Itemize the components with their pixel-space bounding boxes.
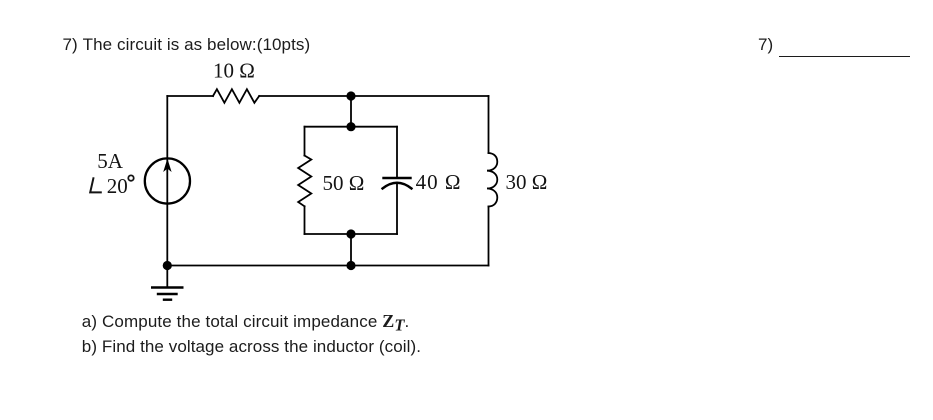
wire: inner box bottom bbox=[305, 233, 398, 235]
wire: top left segment bbox=[167, 95, 213, 97]
wire: inner box right above capacitor bbox=[396, 127, 398, 178]
title: problem statement bbox=[63, 36, 311, 53]
svg-text:40 Ω: 40 Ω bbox=[416, 170, 462, 194]
wire: right vertical above inductor bbox=[488, 96, 490, 153]
ground bar 2 bbox=[158, 293, 177, 295]
wire: right vertical below inductor bbox=[488, 207, 490, 266]
wire: inner box left below resistor bbox=[304, 206, 306, 234]
angle symbol of phasor bbox=[90, 175, 134, 192]
junction dot: top node bbox=[346, 91, 355, 100]
inductor L 30ohm coil bbox=[487, 153, 497, 207]
wire: bottom horizontal bbox=[167, 265, 488, 267]
wire: inner box top bbox=[305, 126, 398, 128]
wire: left vertical through source bbox=[166, 96, 168, 266]
current source I1 circle bbox=[145, 158, 190, 203]
capacitor C 40ohm curved plate bbox=[383, 183, 412, 189]
junction dot: bottom node bbox=[346, 261, 355, 270]
answer blank line bbox=[779, 56, 910, 58]
ground stub wire bbox=[166, 266, 168, 288]
degree symbol bbox=[128, 175, 133, 180]
resistor R 50ohm zigzag bbox=[298, 156, 311, 207]
junction dot: box bottom node bbox=[346, 229, 355, 238]
ground bar 3 bbox=[164, 299, 171, 301]
current source arrow head bbox=[163, 159, 171, 172]
junction dot: box top node bbox=[346, 122, 355, 131]
question b bbox=[82, 338, 421, 355]
wire: stub top junction to box bbox=[350, 96, 352, 127]
svg-text:5A: 5A bbox=[97, 149, 124, 173]
svg-text:20: 20 bbox=[107, 174, 128, 198]
svg-text:50 Ω: 50 Ω bbox=[323, 171, 365, 195]
ground bar 1 bbox=[152, 286, 182, 288]
capacitor C 40ohm top plate bbox=[384, 177, 411, 179]
svg-text:30 Ω: 30 Ω bbox=[506, 170, 548, 194]
wire: inner box right below capacitor bbox=[396, 183, 398, 234]
wire: top right segment bbox=[259, 95, 488, 97]
wire: stub box bottom to bottom wire bbox=[350, 234, 352, 266]
junction dot: ground node bbox=[163, 261, 172, 270]
resistor R 10ohm zigzag bbox=[213, 89, 259, 103]
wire: inner box left above resistor bbox=[304, 127, 306, 156]
answer label 7) bbox=[758, 36, 773, 53]
question a bbox=[82, 313, 410, 334]
svg-text:10 Ω: 10 Ω bbox=[213, 58, 255, 82]
